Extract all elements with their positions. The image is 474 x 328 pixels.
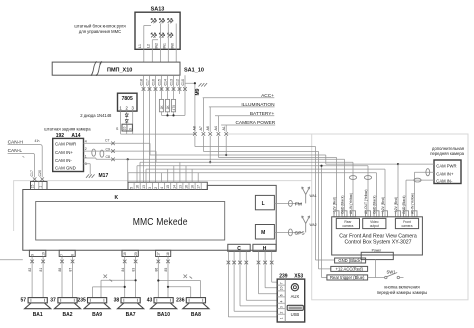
connector L box	[255, 195, 274, 209]
K feed stubs	[162, 162, 199, 182]
svg-text:C16: C16	[152, 79, 156, 85]
svg-text:6: 6	[280, 294, 284, 296]
svg-text:Power: Power	[372, 248, 382, 252]
svg-text:38: 38	[114, 297, 120, 303]
svg-text:2: 2	[280, 312, 284, 314]
pin A4 wire	[217, 136, 219, 158]
ground M17	[86, 174, 95, 177]
voltage regulator 7805	[118, 93, 138, 111]
svg-text:camera: camera	[402, 224, 413, 228]
svg-text:AV-OUT (Yellow): AV-OUT (Yellow)	[364, 190, 368, 215]
AUX jack	[291, 284, 298, 291]
speaker wires with X connectors	[32, 257, 168, 298]
speaker pin cells under head unit	[29, 250, 170, 256]
svg-text:CAM PWR: CAM PWR	[436, 164, 456, 169]
svg-text:5: 5	[130, 187, 134, 189]
svg-text:BA7: BA7	[126, 312, 136, 318]
wires ПМП pins down	[144, 91, 156, 182]
port Front camera	[395, 218, 418, 228]
svg-text:9: 9	[30, 254, 34, 256]
svg-text:Car Front And Rear View Camera: Car Front And Rear View Camera	[339, 233, 417, 239]
svg-text:82: 82	[28, 268, 32, 272]
wire gnd rear drop	[344, 159, 346, 217]
svg-text:передней камеры камеры: передней камеры камеры	[377, 290, 428, 295]
shield ellipse front IN-	[414, 178, 421, 182]
svg-text:IN0: IN0	[171, 43, 175, 49]
resistor R2	[167, 91, 169, 99]
svg-text:18: 18	[191, 185, 195, 189]
svg-text:4: 4	[280, 300, 284, 302]
svg-text:M17: M17	[99, 173, 109, 179]
camera control box XY-3027	[332, 217, 423, 255]
svg-text:85: 85	[164, 268, 168, 272]
svg-text:USB: USB	[291, 312, 300, 317]
wires SA13 to connector bar	[144, 49, 176, 62]
svg-text:CAM IN-: CAM IN-	[55, 158, 72, 163]
svg-text:10: 10	[280, 286, 284, 290]
rear camera box A14	[53, 138, 84, 171]
svg-text:13: 13	[178, 185, 182, 189]
switch S5	[159, 33, 164, 38]
diode VD2	[125, 119, 128, 124]
svg-text:C10: C10	[181, 79, 185, 85]
svg-text:88: 88	[58, 268, 62, 272]
power lead Rear trigger (Blue)	[327, 275, 368, 280]
svg-text:CAM IN+: CAM IN+	[55, 150, 73, 155]
resistor R3	[173, 91, 175, 99]
svg-text:57: 57	[20, 297, 26, 303]
svg-text:236: 236	[176, 297, 185, 303]
power lead GND (Black)	[335, 258, 366, 263]
svg-text:C: C	[237, 246, 241, 252]
svg-text:L: L	[262, 201, 265, 207]
svg-text:C17: C17	[146, 79, 150, 85]
svg-text:14: 14	[172, 185, 176, 189]
feeder A4 battery to +12V rear	[218, 157, 336, 216]
connector bar ПМП_X10 / SA1_10	[52, 62, 180, 75]
pin A6 wire	[209, 136, 211, 162]
connector pin row under bar: pins C18..C10	[140, 79, 186, 85]
svg-text:86: 86	[154, 268, 158, 272]
pin stubs	[144, 75, 186, 94]
power feed verticals to control bars	[316, 147, 335, 261]
svg-text:BA10: BA10	[157, 312, 170, 318]
svg-text:WA2: WA2	[310, 223, 317, 227]
svg-text:для управления ММС: для управления ММС	[79, 29, 121, 34]
svg-text:7805: 7805	[122, 96, 133, 102]
bus b3 video rear	[140, 162, 353, 217]
head unit inner box	[36, 202, 225, 241]
svg-text:GPS: GPS	[295, 230, 305, 236]
resistor R1	[161, 91, 163, 99]
port Video output	[363, 218, 386, 228]
X53 pin strip	[284, 279, 286, 322]
svg-text:13: 13	[142, 185, 146, 189]
svg-text:3: 3	[148, 187, 152, 189]
svg-text:41: 41	[35, 139, 39, 143]
svg-text:10: 10	[41, 252, 45, 256]
speaker BA9	[77, 297, 110, 318]
wire power port to switch	[368, 260, 385, 278]
svg-text:штатная задняя камера: штатная задняя камера	[44, 126, 91, 131]
wire CAM IN- to C8	[84, 158, 345, 159]
wire CAM IN+ to C9	[84, 151, 157, 162]
shield ellipse front IN+	[426, 169, 430, 176]
svg-text:20: 20	[134, 252, 138, 256]
svg-text:camera: camera	[342, 224, 353, 228]
svg-text:C18: C18	[140, 79, 144, 85]
wire numbers	[28, 268, 168, 272]
svg-text:15: 15	[31, 184, 35, 188]
diode VD1	[125, 113, 128, 118]
tap wires to BA9	[93, 280, 136, 297]
svg-text:Rear trigger (Blue): Rear trigger (Blue)	[330, 275, 365, 280]
svg-text:16: 16	[185, 185, 189, 189]
svg-text:1: 1	[280, 317, 284, 319]
svg-text:17: 17	[157, 252, 161, 256]
svg-text:17: 17	[197, 185, 201, 189]
pin A7 wire: ACC feeder	[203, 136, 318, 152]
svg-text:C7: C7	[105, 139, 110, 143]
pin X marks	[142, 87, 146, 91]
zone top edge extension	[226, 133, 311, 135]
svg-text:470: 470	[172, 105, 176, 111]
svg-text:WA1: WA1	[310, 194, 317, 198]
zone: head unit area	[14, 181, 312, 231]
svg-text:10: 10	[123, 126, 127, 130]
svg-text:BA2: BA2	[62, 312, 72, 318]
svg-text:кнопка включения: кнопка включения	[384, 285, 419, 290]
speaker BA2	[50, 297, 81, 318]
FM antenna feed	[274, 202, 302, 204]
connector H pins	[259, 251, 278, 293]
twisted pair mark	[104, 275, 113, 282]
cable break symbol	[91, 61, 102, 75]
wire front CAM IN+ to AV-IN front	[415, 172, 435, 217]
svg-text:4: 4	[85, 139, 87, 143]
connector M box	[255, 225, 274, 240]
svg-text:BA9: BA9	[92, 312, 102, 318]
svg-text:C17: C17	[30, 170, 34, 176]
SA13 pin labels	[138, 43, 175, 49]
connector C box	[228, 244, 250, 251]
svg-text:A4: A4	[214, 126, 218, 130]
RCA ellipse on AV-OUT	[364, 176, 371, 180]
shield ellipse pair	[92, 149, 96, 156]
svg-text:C20: C20	[38, 170, 42, 176]
svg-text:передняя камера: передняя камера	[430, 151, 464, 156]
switch S4	[151, 33, 156, 38]
power lead +12 ACC (Red)	[331, 266, 368, 271]
svg-text:19: 19	[123, 252, 127, 256]
svg-text:output: output	[370, 224, 379, 228]
svg-text:H: H	[263, 246, 267, 252]
bus b5 battery	[146, 169, 385, 217]
svg-text:A6: A6	[206, 126, 210, 130]
wire 7805 rail to A8 column	[121, 133, 195, 135]
svg-text:A8: A8	[192, 126, 196, 130]
speaker BA10	[147, 297, 177, 318]
head unit outer box	[23, 185, 276, 250]
wire front CAM PWR to +12V front	[398, 164, 434, 217]
svg-text:235: 235	[77, 297, 86, 303]
connector C pins	[228, 251, 277, 317]
switch S6	[168, 33, 173, 38]
connector pins A8 A7 A6 A4 A1	[192, 126, 226, 130]
front camera box	[434, 160, 461, 184]
svg-text:84: 84	[121, 268, 125, 272]
svg-text:C13: C13	[170, 79, 174, 85]
svg-text:SA1_10: SA1_10	[184, 68, 204, 74]
svg-text:9: 9	[128, 128, 132, 130]
svg-text:2: 2	[154, 187, 158, 189]
twisted pair mark	[184, 275, 193, 279]
svg-text:A1: A1	[222, 126, 226, 130]
connector K cell row	[128, 182, 207, 189]
svg-text:3: 3	[280, 306, 284, 308]
port Rear camera	[336, 218, 359, 228]
switch S2	[159, 19, 164, 24]
zone: camera kit area	[312, 134, 468, 300]
svg-text:7: 7	[280, 282, 284, 284]
svg-text:2 диода 1N4148: 2 диода 1N4148	[80, 113, 112, 118]
ground M9	[185, 83, 195, 134]
svg-text:A7: A7	[199, 126, 203, 130]
svg-text:+12 ACC(Red): +12 ACC(Red)	[336, 266, 364, 271]
svg-text:AUX: AUX	[291, 294, 300, 299]
wire from left edge	[0, 259, 23, 261]
svg-text:C14: C14	[164, 79, 168, 85]
bus b6 ground	[128, 173, 377, 217]
speaker BA7	[114, 297, 144, 318]
connector cells S under 7805	[122, 124, 132, 131]
USB port	[287, 305, 303, 310]
pin A1 wire	[225, 136, 227, 155]
svg-text:M9: M9	[195, 88, 201, 95]
wire CAM GND to M17	[84, 164, 91, 175]
svg-text:CAM IN-: CAM IN-	[436, 179, 453, 184]
svg-text:43: 43	[147, 297, 153, 303]
svg-text:15: 15	[166, 185, 170, 189]
svg-text:IN1: IN1	[163, 43, 167, 49]
antenna WA2	[302, 216, 310, 233]
pin A8 wire: ground feeder	[195, 136, 316, 147]
speaker BA1	[20, 297, 51, 318]
svg-text:C8: C8	[106, 155, 111, 159]
svg-text:L1: L1	[138, 44, 142, 48]
svg-text:CAM GND: CAM GND	[55, 166, 76, 171]
svg-text:M: M	[261, 230, 265, 236]
RCA ellipse on AV-IN rear	[349, 176, 356, 180]
svg-text:87: 87	[69, 268, 73, 272]
svg-text:C15: C15	[158, 79, 162, 85]
connector H box	[253, 244, 276, 251]
svg-text:83: 83	[132, 268, 136, 272]
svg-text:81: 81	[39, 268, 43, 272]
7805 pin wires	[121, 111, 133, 134]
svg-text:7: 7	[60, 254, 64, 256]
svg-text:BA8: BA8	[191, 312, 201, 318]
svg-text:1: 1	[39, 186, 43, 188]
antenna WA1	[302, 187, 310, 204]
svg-text:4: 4	[160, 187, 164, 189]
svg-text:CAM IN+: CAM IN+	[436, 171, 454, 176]
svg-text:37: 37	[50, 297, 56, 303]
svg-text:Control Box System XY-3027: Control Box System XY-3027	[345, 240, 412, 246]
svg-text:C12: C12	[176, 79, 180, 85]
svg-text:18: 18	[166, 252, 170, 256]
resistor common rail to pin C10	[162, 91, 186, 115]
speaker BA8	[176, 297, 209, 318]
svg-text:L2: L2	[147, 44, 151, 48]
bus b4 video out	[137, 166, 368, 217]
svg-text:2: 2	[85, 147, 87, 151]
svg-text:C9: C9	[106, 147, 111, 151]
svg-text:8: 8	[71, 254, 75, 256]
GPS antenna feed	[274, 231, 302, 233]
bus b1 camera power	[150, 155, 398, 164]
svg-text:16: 16	[136, 185, 140, 189]
tap wires to BA8	[158, 281, 200, 298]
svg-text:BA1: BA1	[33, 312, 43, 318]
svg-text:IN2: IN2	[155, 43, 159, 49]
svg-text:CAM PWR: CAM PWR	[55, 142, 76, 147]
svg-text:GND (Black): GND (Black)	[338, 258, 362, 263]
switch S1	[151, 19, 156, 24]
control box column labels	[332, 190, 414, 215]
control box top pin cells	[334, 211, 417, 217]
SA13 internal wires	[144, 24, 176, 50]
wire front CAM IN- to GND front	[406, 180, 434, 217]
switch S3	[168, 19, 173, 24]
svg-text:FM: FM	[295, 201, 302, 207]
svg-text:ПМП_X10: ПМП_X10	[107, 67, 132, 73]
wire CAM PWR to C7	[84, 143, 151, 155]
svg-text:K: K	[115, 195, 119, 201]
svg-text:MMC Mekede: MMC Mekede	[133, 216, 188, 228]
